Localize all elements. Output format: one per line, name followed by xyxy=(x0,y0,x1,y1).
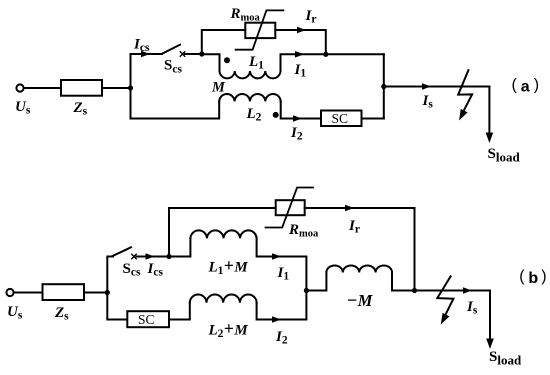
bus wire down to SC branch (b) xyxy=(107,293,127,320)
varistor Rmoa box (a) xyxy=(245,23,275,38)
svg-text:Ir: Ir xyxy=(348,218,360,236)
source terminal Us (a) xyxy=(16,84,23,91)
wire node B to L1 (a) xyxy=(202,54,220,71)
wire node B to L1M coil (b) xyxy=(169,238,190,256)
svg-text:Us: Us xyxy=(7,304,23,322)
wire L2M coil to merge bus (b) xyxy=(257,291,307,320)
svg-text:Sload: Sload xyxy=(488,146,521,165)
output wire Is (b) xyxy=(415,290,491,292)
svg-text:a: a xyxy=(521,79,530,96)
node E junction (b) xyxy=(412,288,417,293)
svg-text:SC: SC xyxy=(332,111,349,126)
right bus wire (a) xyxy=(383,54,385,118)
load branch wire down (b) xyxy=(489,291,491,341)
svg-text:−M: −M xyxy=(347,290,374,310)
svg-text:Rmoa: Rmoa xyxy=(230,6,261,24)
svg-text:Scs: Scs xyxy=(123,261,141,279)
wire varistor to right bend (a) xyxy=(275,30,326,54)
wire L1 to right bus (a) xyxy=(281,54,384,71)
left bus wire (a) xyxy=(130,54,132,119)
current arrow I1 (a) xyxy=(295,51,304,58)
svg-text:b: b xyxy=(528,270,538,287)
current arrow Ics (a) xyxy=(141,51,150,58)
wire Zs to node A (a) xyxy=(102,87,131,89)
svg-text:I1: I1 xyxy=(294,62,307,80)
current arrow I2 (b) xyxy=(272,316,281,323)
svg-text:): ) xyxy=(541,268,546,285)
svg-text:Us: Us xyxy=(15,99,31,117)
bus wire up to switch branch (b) xyxy=(107,257,113,293)
svg-text:I2: I2 xyxy=(275,329,288,347)
switch Scs contact x (a) xyxy=(180,52,184,56)
svg-text:Zs: Zs xyxy=(73,100,88,118)
svg-text:L1: L1 xyxy=(248,54,264,72)
current arrow I2 (a) xyxy=(293,115,302,122)
svg-text:Rmoa: Rmoa xyxy=(288,222,319,240)
varistor Rmoa box (b) xyxy=(276,200,305,215)
series compensation SC box (b) xyxy=(127,311,169,327)
svg-text:Zs: Zs xyxy=(54,305,69,323)
wire SC to right bus (a) xyxy=(362,118,384,120)
varistor Rmoa diagonal (b) xyxy=(266,188,314,228)
node A junction (a) xyxy=(128,85,133,90)
node C junction (a) xyxy=(323,52,328,57)
wire switch to node B (a) xyxy=(185,53,202,55)
load branch wire down (a) xyxy=(488,87,490,135)
fault lightning bolt (a) xyxy=(458,70,472,111)
current arrow Ir (a) xyxy=(297,27,306,34)
lightning arrowhead (a) xyxy=(459,109,468,121)
switch Scs contact x (b) xyxy=(132,254,136,258)
polarity dot L2 (a) xyxy=(273,112,279,118)
wire switch to node B (b) xyxy=(137,256,170,258)
svg-text:L2+M: L2+M xyxy=(208,319,249,341)
inductor L2 (a) xyxy=(219,94,280,101)
wire -M coil to node E (b) xyxy=(392,272,415,290)
svg-text:Is: Is xyxy=(466,299,478,317)
varistor branch riser (b) xyxy=(169,208,276,257)
lower branch wire node A to L2 (a) xyxy=(131,101,220,118)
node B junction (a) xyxy=(199,51,204,56)
impedance Zs box (b) xyxy=(43,284,85,300)
switch Scs blade (b) xyxy=(113,247,132,256)
wire merge node to -M coil (b) xyxy=(306,272,326,290)
source terminal Us (b) xyxy=(6,289,13,296)
wire Zs to node A (b) xyxy=(84,292,107,294)
wire terminal to Zs (b) xyxy=(14,292,42,294)
switch Scs blade (a) xyxy=(162,45,180,54)
current arrow Ics (b) xyxy=(146,253,155,260)
current arrow I1 (b) xyxy=(272,253,281,260)
output wire Is (a) xyxy=(384,86,490,88)
inductor -M (b) xyxy=(326,266,392,273)
current arrow Ir (b) xyxy=(345,205,354,212)
node A junction (b) xyxy=(105,290,110,295)
inductor L2+M (b) xyxy=(190,294,257,302)
svg-text:SC: SC xyxy=(138,312,155,327)
svg-text:(: ( xyxy=(512,77,518,94)
lightning arrowhead (b) xyxy=(441,313,450,325)
svg-text:M: M xyxy=(211,80,226,96)
merge node junction (b) xyxy=(304,288,309,293)
wire L1M coil to merge bus (b) xyxy=(257,238,307,290)
node D junction (a) xyxy=(381,84,386,89)
fault lightning bolt (b) xyxy=(437,276,453,314)
current arrow Is (a) xyxy=(422,83,431,90)
wire L2 to SC (a) xyxy=(281,101,321,118)
polarity dot L1 (a) xyxy=(224,57,230,63)
current arrow Is (b) xyxy=(463,287,472,294)
load arrowhead (b) xyxy=(486,339,494,350)
svg-text:(: ( xyxy=(519,268,525,285)
series compensation SC box (a) xyxy=(321,111,362,127)
svg-text:L1+M: L1+M xyxy=(208,256,249,278)
svg-text:I2: I2 xyxy=(290,125,303,143)
svg-text:Ics: Ics xyxy=(133,37,150,55)
inductor L1+M (b) xyxy=(190,230,256,238)
inductor L1 (a) xyxy=(220,71,281,78)
svg-text:Scs: Scs xyxy=(164,58,182,76)
node B junction (b) xyxy=(166,254,171,259)
svg-text:Sload: Sload xyxy=(489,349,522,368)
wire varistor to node E (b) xyxy=(305,208,415,291)
svg-text:Is: Is xyxy=(422,93,434,111)
impedance Zs box (a) xyxy=(61,80,102,96)
svg-text:Ics: Ics xyxy=(147,261,164,279)
wire node B up to varistor (a) xyxy=(202,30,246,54)
wire terminal to Zs (a) xyxy=(24,87,61,89)
svg-text:L2: L2 xyxy=(246,106,262,124)
wire SC to L2M coil (b) xyxy=(169,303,190,320)
svg-text:I1: I1 xyxy=(277,265,290,283)
varistor Rmoa diagonal (a) xyxy=(236,10,284,49)
wire switch branch left (a) xyxy=(131,53,163,55)
svg-text:): ) xyxy=(534,77,539,94)
svg-text:Ir: Ir xyxy=(305,8,317,26)
load arrowhead (a) xyxy=(486,133,494,144)
